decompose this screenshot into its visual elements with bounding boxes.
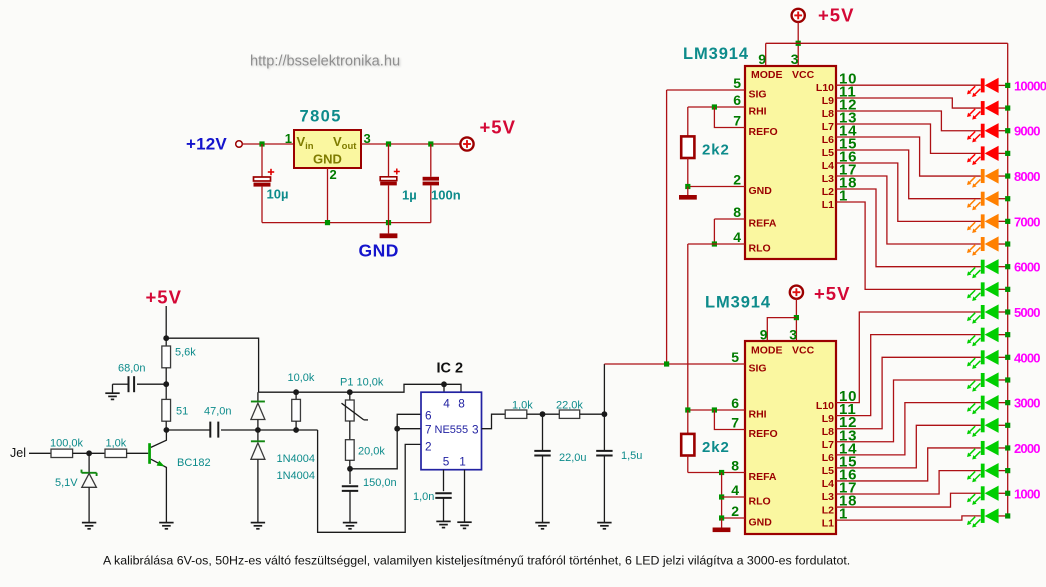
svg-text:IC 2: IC 2 (437, 361, 464, 377)
wire VCC (795, 299, 797, 341)
resistor 5,6k (162, 338, 171, 384)
LED 19 (967, 486, 999, 505)
wire L8 to LED3 (836, 111, 981, 131)
wire RLO pin 4 (688, 243, 745, 245)
power +5V symbol (460, 137, 473, 150)
wire L10 to LED11 (836, 312, 981, 403)
wire (999, 470, 1008, 472)
capacitor 1,5u (596, 414, 612, 522)
svg-text:8: 8 (733, 204, 741, 220)
svg-text:L8: L8 (822, 108, 834, 120)
svg-text:+5V: +5V (146, 287, 182, 308)
svg-text:RLO: RLO (749, 243, 771, 255)
svg-text:68,0n: 68,0n (118, 362, 146, 374)
svg-text:10000: 10000 (1014, 78, 1046, 93)
svg-text:1000: 1000 (1014, 486, 1040, 501)
svg-text:MODE: MODE (751, 345, 783, 357)
svg-text:REFO: REFO (749, 126, 778, 138)
resistor 100,0k (51, 449, 73, 457)
svg-text:2: 2 (731, 503, 739, 519)
wire (999, 515, 1008, 517)
junction (1005, 219, 1010, 224)
svg-text:L5: L5 (822, 147, 834, 159)
wire (999, 243, 1008, 245)
svg-text:8: 8 (731, 458, 739, 474)
wire REFA to GND vertical (721, 473, 723, 519)
wire REFA pin 8 (688, 472, 745, 474)
wire VCC (797, 22, 799, 66)
resistor 10,0k (292, 392, 301, 430)
wire SIG vertical (666, 90, 668, 364)
junction (293, 389, 299, 395)
svg-text:1N4004: 1N4004 (277, 453, 316, 465)
wire L1 to LED10 (836, 202, 981, 289)
svg-text:6: 6 (731, 395, 739, 411)
svg-text:10,0k: 10,0k (288, 372, 315, 384)
wire (527, 413, 560, 415)
zener diode 5,1V (82, 453, 97, 522)
svg-text:2: 2 (425, 440, 432, 454)
svg-text:MODE: MODE (751, 69, 783, 81)
LED 9 (967, 259, 999, 278)
svg-text:5000: 5000 (1014, 305, 1040, 320)
capacitor 150,0n (342, 469, 358, 523)
junction (1005, 105, 1010, 110)
wire L4 to LED17 (836, 448, 981, 481)
junction (712, 241, 717, 246)
wire L3 to LED18 (836, 471, 981, 494)
svg-text:4: 4 (733, 229, 741, 245)
LED 15 (967, 395, 999, 414)
svg-text:7: 7 (731, 415, 739, 431)
wire (221, 429, 318, 431)
junction (540, 411, 546, 417)
wire (999, 175, 1008, 177)
wire (350, 414, 421, 469)
resistor 20,0k (345, 440, 354, 469)
svg-text:2000: 2000 (1014, 441, 1040, 456)
junction (794, 315, 799, 320)
ground (159, 523, 173, 529)
wire RLO down to chip2 RHI (687, 244, 689, 410)
wire (999, 107, 1008, 109)
junction (1005, 355, 1010, 360)
junction (163, 335, 169, 341)
svg-text:L3: L3 (822, 491, 834, 503)
junction (293, 427, 299, 433)
svg-text:SIG: SIG (749, 363, 767, 375)
svg-text:L2: L2 (822, 186, 834, 198)
junction (719, 515, 724, 520)
junction (428, 141, 433, 146)
wire (603, 364, 605, 414)
svg-text:3000: 3000 (1014, 396, 1040, 411)
wire (999, 130, 1008, 132)
ground (343, 523, 357, 529)
svg-text:47,0n: 47,0n (204, 406, 232, 418)
junction (86, 450, 92, 456)
wire (443, 384, 445, 392)
ground (535, 523, 549, 529)
capacitor 10u (254, 144, 275, 223)
ground (457, 522, 471, 528)
wire output pin 3 (482, 414, 506, 429)
svg-text:L10: L10 (816, 400, 834, 412)
LED 3 (967, 123, 999, 142)
junction (1005, 423, 1010, 428)
svg-text:5: 5 (731, 349, 739, 365)
junction (259, 141, 264, 146)
svg-text:8000: 8000 (1014, 169, 1040, 184)
svg-text:L1: L1 (822, 517, 834, 529)
LED 10 (967, 282, 999, 301)
svg-text:4000: 4000 (1014, 350, 1040, 365)
capacitor 22,0u (534, 414, 550, 522)
svg-text:L10: L10 (816, 82, 834, 94)
junction (1005, 196, 1010, 201)
svg-text:3: 3 (791, 51, 799, 67)
resistor 1,0k output (505, 410, 527, 418)
wire (999, 152, 1008, 154)
wire L2 to LED9 (836, 189, 981, 267)
svg-text:SIG: SIG (749, 89, 767, 101)
ground (713, 518, 731, 532)
wire MODE (765, 43, 767, 66)
svg-text:100,0k: 100,0k (50, 438, 84, 450)
junction (1005, 287, 1010, 292)
wire (999, 288, 1008, 290)
svg-text:2: 2 (733, 172, 741, 188)
svg-text:3: 3 (472, 423, 479, 437)
svg-text:RHI: RHI (749, 106, 767, 118)
wire (999, 356, 1008, 358)
ground (679, 187, 697, 200)
LED 2 (967, 100, 999, 119)
svg-text:L5: L5 (822, 465, 834, 477)
wire SIG pin 5 (604, 363, 745, 365)
junction (1005, 513, 1010, 518)
wire (73, 452, 106, 454)
wire ground rail (262, 222, 431, 224)
svg-text:150,0n: 150,0n (363, 477, 397, 489)
svg-text:L2: L2 (822, 504, 834, 516)
junction (1005, 468, 1010, 473)
svg-text:7805: 7805 (300, 108, 342, 126)
junction (685, 184, 690, 189)
svg-text:7000: 7000 (1014, 214, 1040, 229)
capacitor 68,0n (113, 376, 167, 393)
diode 1N4004 lower (251, 430, 265, 523)
svg-text:2k2: 2k2 (702, 439, 730, 456)
wire (999, 492, 1008, 494)
wire (999, 220, 1008, 222)
svg-text:L6: L6 (822, 134, 834, 146)
junction (163, 381, 169, 387)
junction (1005, 332, 1010, 337)
LED 8 (967, 236, 999, 255)
wire LED anode bus (1007, 43, 1009, 516)
wire (165, 306, 167, 338)
wire L6 to LED5 (836, 137, 981, 176)
svg-text:http://bsselektronika.hu: http://bsselektronika.hu (250, 54, 400, 70)
svg-text:A kalibrálása 6V-os, 50Hz-es v: A kalibrálása 6V-os, 50Hz-es váltó feszü… (103, 554, 850, 568)
junction (685, 407, 690, 412)
svg-text:L3: L3 (822, 173, 834, 185)
svg-text:3: 3 (789, 327, 797, 343)
svg-text:L4: L4 (822, 478, 834, 490)
junction (255, 427, 261, 433)
svg-text:L7: L7 (822, 121, 834, 133)
junction (1005, 377, 1010, 382)
wire REFO pin 7 (714, 410, 745, 430)
wire (580, 413, 605, 415)
wire REFA pin 8 (714, 218, 745, 220)
svg-text:GND: GND (749, 185, 773, 197)
junction (719, 470, 724, 475)
LED 14 (967, 372, 999, 391)
svg-text:1N4004: 1N4004 (277, 470, 316, 482)
junction (1005, 173, 1010, 178)
junction (441, 381, 447, 387)
svg-text:1,5u: 1,5u (621, 450, 642, 462)
wire RLO pin 4 (722, 496, 745, 498)
junction (1005, 128, 1010, 133)
ground (105, 393, 119, 399)
junction (386, 220, 391, 225)
wire trigger loop (318, 430, 421, 532)
wire (999, 311, 1008, 313)
svg-text:LM3914: LM3914 (705, 293, 771, 311)
wire (999, 424, 1008, 426)
svg-text:RLO: RLO (749, 496, 771, 508)
wire (999, 402, 1008, 404)
svg-text:9: 9 (758, 51, 766, 67)
junction (1005, 491, 1010, 496)
wire GND pin 2 (722, 517, 745, 519)
junction (325, 220, 330, 225)
svg-text:4: 4 (731, 482, 739, 498)
wire (361, 143, 460, 145)
resistor 2k2 lower (681, 410, 694, 473)
capacitor 100n (423, 144, 439, 223)
wire L3 to LED8 (836, 176, 981, 244)
junction (1005, 400, 1010, 405)
svg-text:5: 5 (443, 455, 450, 469)
wire L6 to LED15 (836, 403, 981, 455)
svg-text:Jel: Jel (10, 446, 26, 460)
LED 11 (967, 304, 999, 323)
wire (999, 198, 1008, 200)
svg-text:100n: 100n (431, 188, 461, 203)
LED 17 (967, 440, 999, 459)
junction (164, 427, 170, 433)
timer IC2 NE555 (421, 392, 482, 470)
wire RHI pin 6 (688, 106, 745, 108)
wire REFO pin 7 (714, 107, 745, 128)
svg-text:22,0u: 22,0u (559, 452, 587, 464)
svg-text:6000: 6000 (1014, 260, 1040, 275)
svg-text:1,0k: 1,0k (512, 399, 533, 411)
junction (1005, 83, 1010, 88)
svg-text:4: 4 (443, 397, 450, 411)
IC U2 LM3914 (745, 341, 836, 534)
svg-text:+5V: +5V (818, 5, 854, 26)
svg-text:5,6k: 5,6k (175, 347, 196, 359)
svg-text:1µ: 1µ (402, 188, 417, 203)
transistor BC182 (148, 430, 166, 523)
resistor 22,0k (559, 410, 579, 418)
svg-text:L9: L9 (822, 95, 834, 107)
svg-text:8: 8 (458, 397, 465, 411)
LED 6 (967, 191, 999, 210)
svg-text:REFO: REFO (749, 428, 778, 440)
wire top bus (766, 42, 1008, 44)
wire top rail (259, 384, 461, 392)
LED 20 (967, 508, 999, 527)
LED 12 (967, 327, 999, 346)
wire (999, 334, 1008, 336)
wire (29, 452, 51, 454)
svg-text:P1 10,0k: P1 10,0k (340, 376, 384, 388)
svg-text:9000: 9000 (1014, 124, 1040, 139)
wire L9 to LED2 (836, 98, 981, 108)
svg-text:51: 51 (176, 405, 188, 417)
ground (251, 523, 265, 529)
junction (719, 494, 724, 499)
svg-text:L7: L7 (822, 439, 834, 451)
wire (397, 428, 421, 430)
svg-text:RHI: RHI (749, 409, 767, 421)
svg-text:NE555: NE555 (435, 424, 469, 436)
junction (1005, 445, 1010, 450)
svg-text:GND: GND (359, 240, 399, 260)
svg-text:1: 1 (459, 455, 466, 469)
potentiometer P1 10,0k (342, 392, 369, 440)
wire L1 to LED20 (836, 516, 981, 520)
ground (82, 523, 96, 529)
wire (166, 429, 210, 431)
wire SIG pin 5 (667, 89, 745, 91)
svg-text:L9: L9 (822, 413, 834, 425)
svg-text:7: 7 (733, 113, 741, 129)
LED 5 (967, 168, 999, 187)
svg-text:1,0k: 1,0k (106, 438, 127, 450)
wire (327, 168, 329, 223)
svg-text:VCC: VCC (792, 345, 815, 357)
svg-text:7: 7 (425, 423, 432, 437)
svg-text:10µ: 10µ (267, 187, 289, 202)
LED 16 (967, 418, 999, 437)
junction (347, 389, 353, 395)
svg-text:L4: L4 (822, 160, 834, 172)
wire MODE (767, 318, 796, 341)
svg-text:GND: GND (749, 517, 773, 529)
wire L7 to LED4 (836, 124, 981, 153)
svg-text:REFA: REFA (749, 471, 777, 483)
wire L7 to LED14 (836, 380, 981, 442)
resistor 2k2 upper (681, 107, 694, 187)
wire (999, 266, 1008, 268)
resistor 51 (162, 384, 171, 430)
wire L9 to LED12 (836, 335, 981, 416)
ground GND (380, 223, 398, 239)
wire (126, 452, 148, 454)
LED 7 (967, 214, 999, 233)
LED 4 (967, 146, 999, 165)
svg-text:1,0n: 1,0n (413, 491, 434, 503)
svg-text:+5V: +5V (480, 117, 516, 138)
capacitor 1u (380, 144, 400, 223)
svg-text:2k2: 2k2 (702, 142, 730, 159)
svg-text:9: 9 (760, 327, 768, 343)
capacitor 1,0n (435, 470, 451, 522)
wire (464, 470, 466, 523)
junction (1005, 151, 1010, 156)
svg-text:GND: GND (313, 152, 342, 167)
LED 18 (967, 463, 999, 482)
wire (166, 338, 258, 392)
wire (999, 379, 1008, 381)
svg-text:L6: L6 (822, 452, 834, 464)
svg-text:6: 6 (425, 409, 432, 423)
wire L4 to LED7 (836, 163, 981, 221)
svg-text:1: 1 (285, 131, 292, 146)
wire L8 to LED13 (836, 357, 981, 428)
svg-text:+5V: +5V (814, 283, 850, 304)
wire (999, 84, 1008, 86)
IC U1 LM3914 (745, 66, 836, 259)
svg-text:VCC: VCC (792, 69, 815, 81)
wire L10 to LED1 (836, 84, 981, 86)
wire (999, 447, 1008, 449)
wire L2 to LED19 (836, 493, 981, 507)
junction (394, 426, 400, 432)
junction (1005, 241, 1010, 246)
svg-text:5: 5 (733, 75, 741, 91)
wire RHI pin 6 (688, 409, 745, 411)
svg-text:22,0k: 22,0k (556, 399, 583, 411)
capacitor 47,0n (210, 422, 218, 438)
svg-text:6: 6 (733, 92, 741, 108)
svg-text:+12V: +12V (186, 135, 227, 154)
wire GND pin 2 (688, 186, 745, 188)
junction (602, 411, 608, 417)
svg-text:L1: L1 (822, 199, 834, 211)
junction (386, 141, 391, 146)
svg-text:LM3914: LM3914 (683, 45, 749, 63)
svg-text:20,0k: 20,0k (358, 446, 385, 458)
power +5V symbol (792, 9, 805, 22)
junction (1005, 309, 1010, 314)
svg-text:L8: L8 (822, 426, 834, 438)
junction (796, 41, 801, 46)
svg-text:2: 2 (330, 167, 337, 182)
junction (712, 104, 717, 109)
wire REFA to RLO (713, 219, 715, 244)
ground (436, 521, 450, 527)
svg-text:REFA: REFA (749, 218, 777, 230)
ground (597, 523, 611, 529)
diode 1N4004 upper (251, 392, 265, 430)
LED 1 (967, 78, 999, 97)
svg-text:BC182: BC182 (177, 457, 211, 469)
wire L5 to LED16 (836, 425, 981, 468)
wire (242, 143, 294, 145)
junction (1005, 264, 1010, 269)
junction (347, 466, 353, 472)
junction (712, 407, 717, 412)
LED 13 (967, 350, 999, 369)
